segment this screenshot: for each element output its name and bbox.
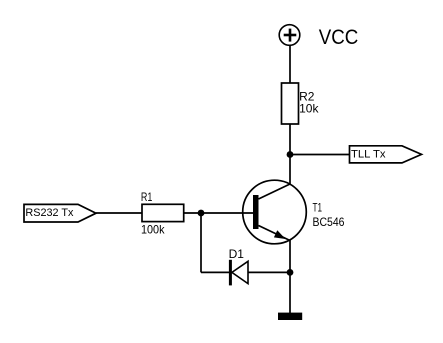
ground <box>278 313 302 320</box>
resistor R1 <box>142 204 184 221</box>
wire D1 to emitter junction <box>248 271 290 273</box>
svg-text:VCC: VCC <box>319 25 359 49</box>
wire to D1 cathode <box>201 271 230 273</box>
resistor R2 <box>282 83 299 124</box>
svg-text:TLL Tx: TLL Tx <box>351 149 386 161</box>
diode D1 <box>229 260 248 286</box>
wire junction to TLL Tx flag <box>290 154 350 156</box>
transistor T1 <box>243 180 307 244</box>
wire VCC to R2 <box>289 45 291 83</box>
node A: base / D1 junction <box>198 210 205 217</box>
node: emitter / D1 junction <box>287 269 294 276</box>
svg-text:R1: R1 <box>141 190 153 204</box>
svg-text:T1: T1 <box>313 201 323 215</box>
svg-text:100k: 100k <box>141 223 165 237</box>
wire flag to R1 <box>96 212 142 214</box>
svg-text:D1: D1 <box>229 247 245 261</box>
wire node A down to D1 <box>200 213 202 272</box>
svg-text:10k: 10k <box>299 101 319 115</box>
power symbol VCC <box>279 25 300 46</box>
node: collector / TLL Tx junction <box>287 151 294 158</box>
wire emitter to ground <box>289 240 291 313</box>
RS232 Tx input flag <box>24 204 96 222</box>
svg-text:BC546: BC546 <box>313 215 345 229</box>
wire R1 to base <box>184 212 253 214</box>
wire R2 to collector <box>289 124 291 185</box>
TLL Tx output flag <box>350 146 422 163</box>
svg-text:RS232 Tx: RS232 Tx <box>25 207 73 219</box>
